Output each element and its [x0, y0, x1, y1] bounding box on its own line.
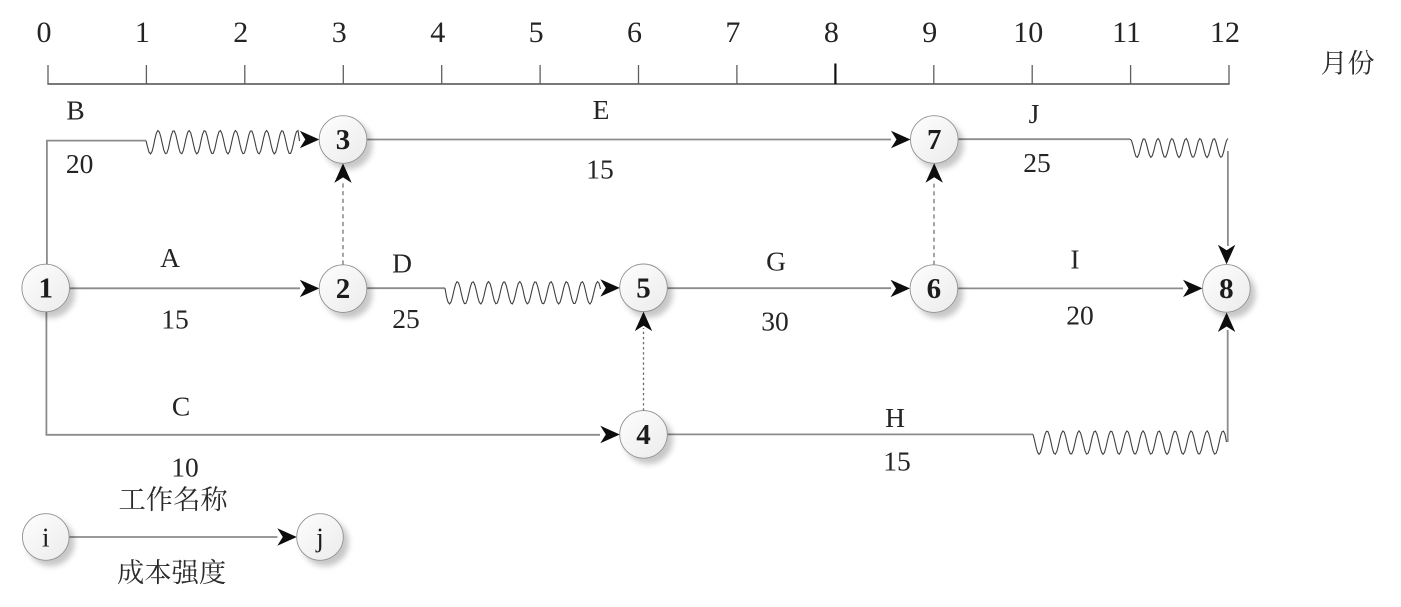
activity C name label: [172, 391, 190, 422]
svg-text:B: B: [66, 95, 84, 126]
svg-text:15: 15: [586, 154, 614, 185]
timeline tick 1: [135, 16, 150, 84]
activity B cost label 20: [66, 148, 94, 179]
svg-text:I: I: [1070, 244, 1079, 275]
activity J name label: [1029, 98, 1040, 129]
svg-text:20: 20: [1066, 300, 1094, 331]
svg-text:25: 25: [392, 303, 420, 334]
svg-text:0: 0: [37, 16, 52, 49]
svg-text:2: 2: [233, 16, 248, 49]
activity G wire: [667, 287, 891, 289]
svg-text:8: 8: [824, 16, 839, 49]
activity J wire: [959, 138, 1131, 140]
svg-text:3: 3: [332, 16, 347, 49]
timeline tick 3: [332, 16, 347, 84]
svg-text:7: 7: [725, 16, 740, 49]
timeline axis: [47, 83, 1229, 85]
svg-text:G: G: [766, 246, 786, 277]
activity A wire: [69, 287, 300, 289]
timeline tick 12: [1210, 16, 1240, 84]
activity D name label: [392, 248, 412, 279]
activity B arrowhead: [300, 131, 320, 148]
svg-text:11: 11: [1112, 16, 1141, 49]
svg-text:4: 4: [430, 16, 445, 49]
axis unit label 月份: [1322, 50, 1374, 75]
activity I wire: [958, 287, 1183, 289]
activity C wire (node1 down + horizontal): [46, 312, 600, 435]
dummy arrow 6-7 arrowhead: [926, 163, 943, 183]
activity G name label: [766, 246, 786, 277]
svg-text:J: J: [1029, 98, 1040, 129]
svg-text:12: 12: [1210, 16, 1240, 49]
legend arrow wire i-j: [69, 536, 277, 538]
timeline tick 5: [529, 16, 544, 84]
activity I cost label 20: [1066, 300, 1094, 331]
activity A arrowhead: [300, 280, 320, 297]
node 5: [620, 264, 668, 312]
svg-text:5: 5: [529, 16, 544, 49]
dummy arrow 4-5 dashed wire: [643, 328, 645, 411]
activity I arrowhead: [1183, 280, 1203, 297]
svg-text:15: 15: [883, 446, 911, 477]
timeline tick 11: [1112, 16, 1141, 84]
svg-text:E: E: [593, 94, 610, 125]
activity H name label: [885, 402, 905, 433]
activity H cost label 15: [883, 446, 911, 477]
svg-text:i: i: [42, 523, 50, 553]
svg-text:3: 3: [336, 124, 351, 156]
timeline tick 6: [627, 16, 642, 84]
legend cost-intensity label 成本强度: [118, 559, 225, 584]
svg-text:10: 10: [1013, 16, 1043, 49]
dummy arrow 6-7 dashed wire: [933, 180, 935, 265]
activity J wire down to node8: [1227, 151, 1229, 246]
legend node j: [297, 514, 344, 561]
activity H wire up to node8: [1227, 330, 1229, 442]
activity E arrowhead: [891, 131, 911, 148]
svg-text:1: 1: [38, 273, 53, 305]
svg-text:6: 6: [627, 16, 642, 49]
activity B name label: [66, 95, 84, 126]
svg-text:20: 20: [66, 148, 94, 179]
timeline tick 7: [725, 16, 740, 84]
svg-text:5: 5: [636, 272, 651, 304]
node 2: [319, 265, 367, 313]
timeline tick 10: [1013, 16, 1043, 84]
dummy arrow 2-3 arrowhead: [334, 163, 351, 183]
node 7: [911, 116, 959, 164]
svg-text:30: 30: [761, 306, 789, 337]
dummy arrow 4-5 arrowhead: [635, 312, 652, 332]
activity A name label: [160, 242, 180, 273]
activity E name label: [593, 94, 610, 125]
activity G arrowhead: [891, 280, 911, 297]
activity E cost label 15: [586, 154, 614, 185]
svg-text:9: 9: [922, 16, 937, 49]
node 6: [910, 265, 958, 313]
svg-text:C: C: [172, 391, 190, 422]
node 3: [319, 116, 367, 164]
svg-text:2: 2: [336, 273, 351, 305]
timeline tick 0: [37, 16, 52, 84]
svg-text:1: 1: [135, 16, 150, 49]
activity A cost label 15: [161, 304, 189, 335]
node 8: [1203, 265, 1251, 313]
activity D cost label 25: [392, 303, 420, 334]
svg-text:25: 25: [1023, 147, 1051, 178]
timeline tick 2: [233, 16, 248, 84]
activity C cost label 10: [171, 452, 199, 483]
timeline tick 9: [922, 16, 937, 84]
legend work-name label 工作名称: [120, 486, 227, 511]
activity G cost label 30: [761, 306, 789, 337]
dummy arrow 2-3 dashed wire: [342, 180, 344, 265]
activity C arrowhead: [600, 426, 620, 443]
activity J cost label 25: [1023, 147, 1051, 178]
activity H free-float wavy line: [1033, 431, 1227, 454]
svg-text:D: D: [392, 248, 412, 279]
activity J free-float wavy line: [1130, 139, 1228, 158]
svg-text:10: 10: [171, 452, 199, 483]
activity B wire (node1 up + horizontal): [47, 141, 146, 265]
timeline tick 8: [824, 16, 839, 84]
activity J arrowhead: [1218, 245, 1235, 265]
svg-text:6: 6: [927, 273, 942, 305]
activity H arrowhead: [1218, 313, 1235, 333]
svg-text:H: H: [885, 402, 905, 433]
legend arrowhead: [277, 528, 297, 545]
timeline tick 4: [430, 16, 445, 84]
svg-text:4: 4: [636, 419, 651, 451]
activity D wire: [367, 287, 445, 289]
activity I name label: [1070, 244, 1079, 275]
activity B free-float wavy line: [146, 131, 300, 154]
legend node i: [23, 514, 70, 561]
svg-text:15: 15: [161, 304, 189, 335]
svg-text:7: 7: [927, 124, 942, 156]
svg-text:A: A: [160, 242, 180, 273]
activity E wire: [367, 139, 891, 141]
node 4: [620, 411, 668, 459]
activity H wire: [667, 433, 1033, 435]
svg-text:j: j: [315, 523, 324, 553]
activity D arrowhead: [600, 279, 620, 296]
svg-text:8: 8: [1219, 273, 1234, 305]
activity D free-float wavy line: [445, 282, 601, 304]
node 1: [22, 264, 70, 312]
